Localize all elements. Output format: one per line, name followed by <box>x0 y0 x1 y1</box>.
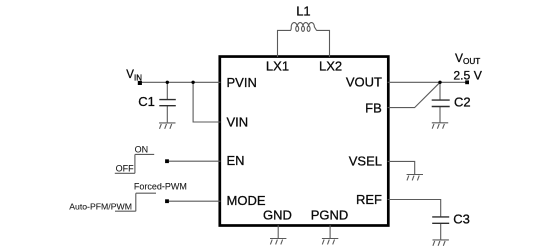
svg-text:PVIN: PVIN <box>227 75 257 90</box>
svg-text:VSEL: VSEL <box>349 153 382 168</box>
ground (GND pin) <box>270 239 286 245</box>
wire C2 bottom <box>439 106 441 122</box>
node junction (VIN tap) <box>191 81 194 84</box>
wire VSEL to ground <box>388 161 415 174</box>
capacitor C1 plates <box>159 100 176 106</box>
switch S1 ON/OFF <box>115 154 154 173</box>
svg-text:C3: C3 <box>453 211 470 226</box>
ground (VSEL) <box>407 175 423 181</box>
wire inductor to LX2 <box>317 30 330 57</box>
wire C1 bottom to ground <box>166 106 168 122</box>
terminal square MODE <box>165 199 169 203</box>
wire LX1 to inductor <box>278 30 292 57</box>
svg-text:C2: C2 <box>454 94 471 109</box>
svg-text:Auto-PFM/PWM: Auto-PFM/PWM <box>69 201 132 211</box>
wire MODE <box>167 200 221 202</box>
wire C1 branch vertical top <box>166 82 168 99</box>
ground (PGND pin) <box>322 239 338 245</box>
wire VIN input to PVIN <box>140 81 221 83</box>
svg-text:MODE: MODE <box>227 193 266 208</box>
wire VIN branch down and right <box>193 82 220 122</box>
svg-text:C1: C1 <box>138 94 155 109</box>
wire REF to C3 <box>388 200 441 217</box>
wire VOUT <box>388 81 467 83</box>
svg-text:VIN: VIN <box>126 69 142 82</box>
ground (C1) <box>159 123 175 129</box>
svg-text:VIN: VIN <box>227 115 249 130</box>
svg-text:LX1: LX1 <box>266 58 289 73</box>
svg-text:OFF: OFF <box>116 164 134 174</box>
svg-text:GND: GND <box>263 207 292 222</box>
wire C3 bottom <box>440 223 442 239</box>
node junction (VOUT / FB / C2) <box>438 81 441 84</box>
ground (C3) <box>433 240 449 246</box>
svg-text:FB: FB <box>365 101 382 116</box>
terminal square VOUT <box>465 80 469 84</box>
ground (C2) <box>432 123 448 129</box>
node junction (C1 tap) <box>166 81 169 84</box>
svg-text:ON: ON <box>135 144 149 154</box>
inductor L1 coil <box>290 23 316 32</box>
svg-text:2.5 V: 2.5 V <box>453 69 482 83</box>
terminal square EN <box>165 159 169 163</box>
IC U1 body <box>220 57 388 226</box>
svg-text:Forced-PWM: Forced-PWM <box>134 181 187 191</box>
capacitor C3 plates <box>432 217 449 223</box>
capacitor C2 plates <box>432 100 450 106</box>
wire EN <box>167 160 221 162</box>
wire GND stub <box>277 225 279 238</box>
svg-text:LX2: LX2 <box>319 58 342 73</box>
svg-text:L1: L1 <box>296 4 310 19</box>
svg-text:REF: REF <box>356 192 382 207</box>
svg-text:VOUT: VOUT <box>346 75 382 90</box>
switch S2 PWM mode <box>115 193 156 211</box>
wire PGND stub <box>329 225 331 238</box>
wire FB and divider diagonal <box>388 82 440 107</box>
svg-text:VOUT: VOUT <box>455 51 480 66</box>
svg-text:PGND: PGND <box>311 207 349 222</box>
svg-text:EN: EN <box>227 153 245 168</box>
wire C2 top <box>439 82 441 99</box>
terminal square VIN <box>138 81 142 85</box>
